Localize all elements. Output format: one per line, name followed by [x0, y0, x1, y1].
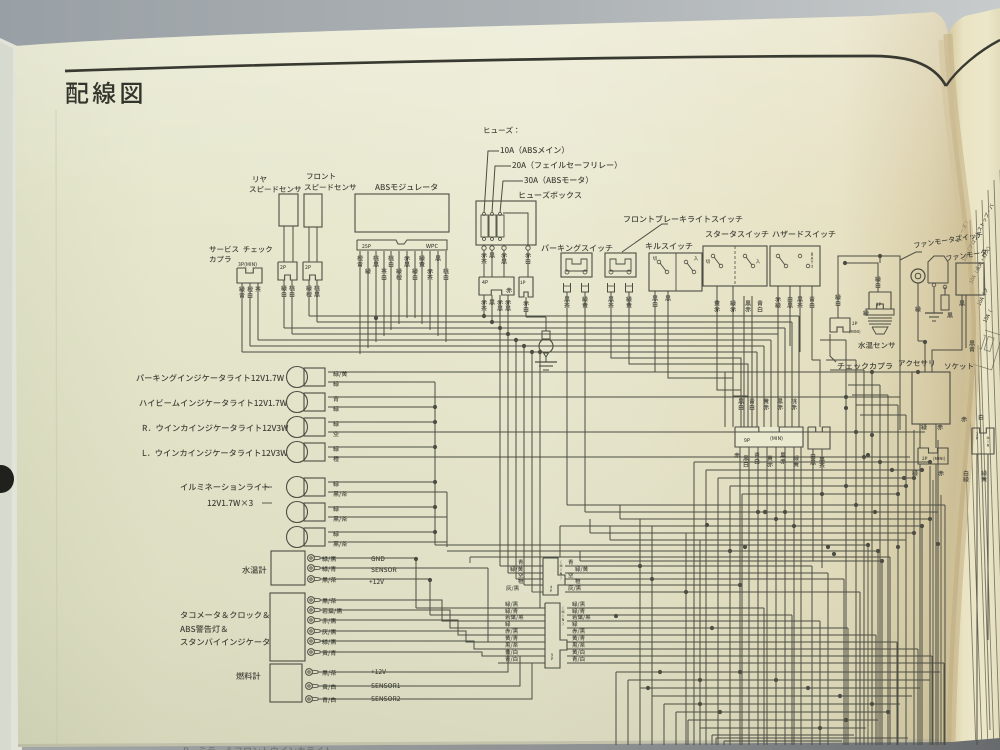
- fuse internal wire: [503, 213, 528, 245]
- wire labels below 4P: [481, 299, 487, 311]
- wires front sensor to 2P: [308, 227, 310, 262]
- connector 4P (MIN) mid: [543, 558, 565, 595]
- water temp sensor 2P label: [876, 303, 881, 306]
- band left turn stubs: [559, 526, 561, 557]
- fan motor box: [956, 263, 984, 295]
- L turn wires: [328, 446, 354, 448]
- wires below 9P MIN: [739, 447, 741, 745]
- right vertical top joins: [820, 339, 846, 341]
- label starter switch: [706, 230, 769, 237]
- book page edge strip left: [0, 38, 26, 750]
- parking switch: [561, 253, 592, 277]
- front brake wires down then right: [611, 292, 741, 427]
- starter switch: [703, 246, 767, 286]
- parking indicator bulb: [287, 367, 308, 388]
- illumination bulb 1: [287, 477, 308, 498]
- band right turns down: [944, 505, 946, 745]
- wires 2P rear down to bus: [283, 280, 285, 328]
- connector 9P (MIN): [735, 427, 803, 447]
- label check coupler: [838, 362, 892, 369]
- label water temp sensor: [858, 342, 895, 349]
- label parking indicator light: [136, 374, 284, 382]
- connector 2P (MINI) mid-right: [918, 448, 948, 464]
- ring terminal green wire: [911, 269, 925, 283]
- hazard switch wires: [777, 286, 779, 340]
- wire labels modulator: [357, 255, 363, 267]
- wire labels below 3P: [239, 286, 245, 298]
- label ABS modulator: [375, 183, 437, 190]
- label fan motor: [946, 249, 987, 262]
- connector 2P rear: [278, 262, 297, 280]
- label fuses: [485, 127, 518, 134]
- label fuse box: [520, 191, 582, 199]
- ABS modulator wires down: [359, 251, 361, 354]
- L turn bulb: [287, 442, 308, 463]
- wire labels below fuse box: [481, 252, 487, 264]
- bus corner drops into connector cluster: [798, 316, 800, 427]
- connector 1P fuse: [519, 277, 533, 297]
- label hazard switch: [772, 231, 835, 238]
- 4P MIN left wire joins: [500, 565, 543, 567]
- binder hole punch: [0, 465, 14, 493]
- wires fuse to 4P connector: [483, 250, 485, 277]
- facing page tilted fuse boxes: [967, 328, 1000, 370]
- bottom partial caption: [184, 747, 332, 750]
- 9P MIN right wires: [567, 607, 764, 609]
- fan switch ground: [933, 295, 935, 313]
- parking indicator wires: [328, 371, 354, 373]
- connector 9P (MIN) mid: [545, 603, 567, 668]
- kill switch: [649, 253, 702, 291]
- upper right horizontals: [694, 461, 930, 463]
- ABS modulator box: [355, 194, 449, 232]
- label front speed sensor: [307, 173, 335, 179]
- label fan motor switch: [900, 252, 922, 260]
- right verticals descending: [845, 340, 847, 745]
- fan motor switch resistor: [933, 287, 935, 295]
- 9P right wire turns down: [763, 608, 765, 745]
- label fuel meter: [236, 672, 260, 680]
- connector 4P fuse: [479, 277, 514, 295]
- wire labels below 9P MIN: [734, 452, 740, 458]
- facing page top rule: [946, 40, 1000, 86]
- near-spine verticals: [932, 480, 934, 745]
- wire mesh dense band: [567, 504, 945, 506]
- label tachometer cluster: [181, 611, 269, 618]
- fan motor wires: [961, 295, 963, 342]
- R turn wires: [328, 421, 354, 423]
- label R turn indicator light: [143, 424, 288, 431]
- wires below small 2P: [812, 449, 814, 561]
- page bottom edge shadow: [18, 739, 951, 747]
- fuse box terminals: [482, 246, 486, 250]
- label fuse 20A fail safe relay: [512, 161, 616, 169]
- front brake wire labels: [608, 297, 614, 308]
- water temp meter box: [271, 551, 305, 585]
- label service check coupler: [209, 246, 271, 253]
- spine shadow: [948, 34, 976, 742]
- fan motor switch: [928, 256, 948, 283]
- wire labels below 2P rear: [281, 285, 287, 297]
- connector 2P small right of 9P: [808, 427, 830, 449]
- kill switch wires: [655, 291, 725, 427]
- fuse label pointer lines: [484, 151, 499, 213]
- extra mid verticals: [639, 519, 641, 745]
- label L turn indicator light: [143, 449, 288, 456]
- 4P MIN left wires: [518, 559, 523, 564]
- junction modulator wire: [374, 316, 378, 320]
- water temp meter lugs: [308, 555, 315, 562]
- hazard switch: [770, 246, 820, 286]
- R turn bulb: [287, 417, 308, 438]
- connector 3P MIN far right: [972, 428, 994, 454]
- label front brake light switch: [624, 215, 742, 223]
- 4P right wire turns: [811, 566, 813, 745]
- parking switch bullets: [564, 283, 571, 292]
- label rear speed sensor: [254, 176, 267, 182]
- ground terminal: [542, 331, 550, 339]
- facing page right of spine: [948, 8, 1000, 742]
- wire 1P to ground: [525, 297, 527, 317]
- wires below 4P: [483, 295, 485, 316]
- tachometer lugs and wires: [308, 597, 315, 604]
- junction fan wires: [923, 340, 927, 344]
- front speed sensor: [304, 194, 322, 227]
- label kill switch: [646, 243, 693, 250]
- accessory socket wires: [919, 424, 921, 448]
- wire bus horizontal rows: [309, 315, 799, 317]
- left margin fold shading: [56, 110, 57, 745]
- title 配線図: [66, 82, 141, 104]
- 4P MIN right wires: [565, 565, 812, 567]
- high beam wires: [328, 396, 354, 398]
- fuel meter lugs and wires: [306, 669, 313, 676]
- wires 3P down to bus: [241, 283, 243, 352]
- fuel wires turn: [352, 649, 508, 672]
- wires fuse outputs down to 4P MIN connector: [499, 328, 501, 566]
- tachometer box: [270, 593, 305, 661]
- wire collector green vertical: [434, 382, 436, 545]
- wire mesh junction dots: [705, 523, 709, 527]
- label fuse 30A ABS motor: [524, 176, 588, 184]
- label accessory socket: [899, 360, 934, 367]
- collector wires to mesh band: [435, 544, 868, 546]
- label high beam indicator light: [139, 399, 286, 406]
- wires 2P front down to bus: [308, 280, 310, 316]
- wire labels above 9P MIN: [738, 399, 743, 410]
- extra switch bundle verticals: [743, 296, 745, 427]
- starter switch wires: [717, 286, 741, 390]
- page top rule thick: [65, 56, 946, 86]
- illumination bulb 3: [287, 527, 308, 548]
- rear speed sensor: [279, 194, 298, 226]
- facing page fuse labels rotated: [955, 221, 969, 243]
- label water temp meter: [242, 566, 266, 574]
- fuse elements: [481, 215, 488, 237]
- accessory socket box: [912, 372, 950, 424]
- high beam bulb: [287, 392, 308, 413]
- fuse box: [476, 201, 536, 245]
- illumination common vertical: [446, 492, 448, 547]
- front brake pointer: [622, 224, 668, 252]
- water temp wire joins: [415, 558, 417, 608]
- bundle join to 9P row: [540, 607, 545, 609]
- label illumination lights: [181, 483, 269, 490]
- wire mesh lower horizontals: [716, 737, 908, 739]
- connector 3P(MIN): [238, 262, 256, 267]
- 9P MIN left wires: [498, 607, 545, 609]
- wire loop to water temp sensor: [838, 256, 900, 430]
- front brake bullets: [608, 283, 615, 292]
- water temp meter wires: [320, 557, 352, 559]
- parking switch wire labels: [564, 297, 570, 308]
- parking switch wires down: [566, 292, 568, 505]
- water temp sensor: [869, 292, 891, 309]
- label parking switch: [541, 244, 612, 251]
- fuel meter box: [270, 664, 302, 702]
- front brake light switch: [605, 253, 636, 277]
- connector 2P front: [303, 262, 322, 280]
- wires rear sensor to 2P: [283, 226, 285, 262]
- label fuse 10A ABS main: [501, 146, 564, 154]
- connector 2P(MINI) check coupler: [830, 318, 850, 332]
- wire labels below 2P front: [306, 285, 312, 297]
- illumination bulb 2: [287, 502, 308, 523]
